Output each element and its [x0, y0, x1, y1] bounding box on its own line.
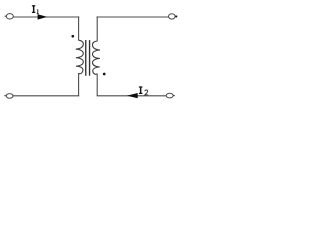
terminal top-left — [5, 14, 14, 19]
terminal bottom-left — [4, 94, 13, 99]
wire bottom-left horizontal — [13, 95, 79, 97]
core line right — [89, 40, 91, 76]
inductor primary L1 (4 loops) — [76, 40, 84, 74]
dot secondary (polarity mark) — [103, 73, 106, 76]
label I2 — [139, 86, 143, 94]
wire right vertical (bottom) — [96, 74, 98, 96]
terminal bottom-right — [166, 93, 175, 98]
inductor secondary L2 (4 loops) — [92, 41, 100, 74]
core line left — [85, 40, 87, 76]
wire bottom-right horizontal — [97, 95, 167, 97]
terminal top-right — [169, 14, 178, 19]
dot primary (polarity mark) — [71, 35, 74, 38]
wire top-right horizontal — [97, 16, 169, 18]
arrow I1 (points right) — [38, 14, 48, 19]
wire top-left horizontal — [13, 16, 79, 18]
wire left vertical (top) — [78, 16, 80, 40]
arrow I2 (points left) — [127, 93, 138, 98]
wire left vertical (bottom) — [78, 73, 80, 96]
wire top-right vertical — [96, 16, 98, 41]
label I1 — [32, 5, 35, 13]
